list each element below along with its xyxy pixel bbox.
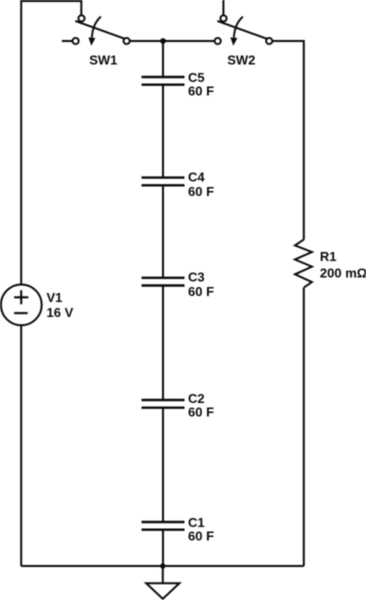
svg-text:60 F: 60 F [188, 184, 214, 199]
wire: open stub at SW1 left terminal [62, 40, 73, 42]
svg-text:V1: V1 [47, 290, 63, 305]
svg-text:SW1: SW1 [89, 52, 117, 67]
SW2 pin 1 (top terminal) [220, 15, 226, 21]
SW1 actuation arrow [92, 17, 101, 38]
wire: C4 bottom to C3 top [162, 185, 164, 277]
capacitor C2 [142, 400, 185, 408]
capacitor C4 [142, 178, 185, 186]
V1 minus sign [14, 312, 28, 314]
svg-text:60 F: 60 F [188, 405, 214, 420]
wire: junction down to ground symbol [162, 566, 164, 583]
svg-text:60 F: 60 F [188, 83, 214, 98]
wire: bottom rail [21, 565, 304, 567]
node: junction of top rail and capacitor string [160, 38, 166, 44]
SW1 pin 2 (right terminal) [124, 38, 130, 44]
wire: junction down to C5 top plate [162, 41, 164, 77]
svg-text:200 mΩ: 200 mΩ [320, 265, 366, 280]
SW2 pin 3 (left terminal) [215, 38, 221, 44]
svg-text:C3: C3 [188, 270, 205, 285]
wire: C2 bottom to C1 top [162, 408, 164, 522]
wire: V1 negative lead down left bus to bottom rail [20, 325, 22, 566]
voltage source V1 [1, 285, 42, 326]
svg-text:C4: C4 [188, 170, 205, 185]
wire: stub above SW2 top terminal [222, 0, 224, 15]
svg-text:16 V: 16 V [47, 305, 74, 320]
svg-text:SW2: SW2 [227, 52, 255, 67]
V1 plus sign [14, 290, 28, 304]
wire: R1 bottom down right bus to bottom rail [303, 288, 305, 566]
svg-text:R1: R1 [320, 249, 337, 264]
SW2 blade [217, 21, 267, 39]
SW2 pin 2 (right terminal) [266, 38, 272, 44]
node: junction of bottom rail and ground [160, 563, 165, 568]
capacitor C1 [142, 522, 185, 530]
ground [146, 583, 179, 599]
wire: C1 bottom to bottom rail [162, 530, 164, 566]
SW2 actuation arrow [234, 17, 243, 38]
wire: V1 positive lead up and across top to SW1 top terminal [21, 1, 81, 284]
SW1 blade [75, 21, 125, 39]
resistor R1 [295, 240, 312, 288]
SW1 pin 1 (top terminal) [78, 15, 84, 21]
wire: top rail from SW1 right terminal to SW2 left terminal [130, 40, 215, 42]
capacitor C5 [142, 77, 185, 85]
svg-text:60 F: 60 F [188, 528, 214, 543]
wire: SW2 right terminal to right bus, down to R1 top [272, 41, 304, 240]
switch SW1 [73, 15, 130, 46]
wire: C5 bottom to C4 top [162, 85, 164, 178]
switch SW2 [215, 15, 273, 46]
wire: C3 bottom to C2 top [162, 286, 164, 400]
SW1 pin 3 (left open terminal) [73, 38, 79, 44]
capacitor C3 [142, 278, 185, 286]
svg-text:60 F: 60 F [188, 284, 214, 299]
